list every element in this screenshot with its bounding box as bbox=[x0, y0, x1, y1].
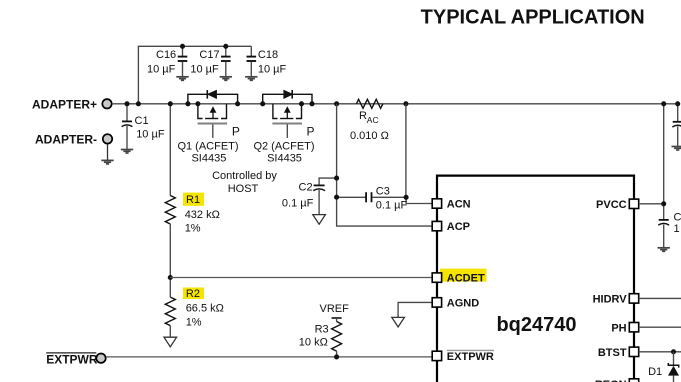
pin ACN bbox=[432, 199, 470, 211]
ground under PVCC cap bbox=[658, 248, 670, 252]
svg-text:C3: C3 bbox=[376, 186, 390, 198]
svg-text:10 µF: 10 µF bbox=[136, 128, 165, 140]
capacitor C1 bbox=[122, 104, 165, 149]
node: C17 junction bbox=[223, 44, 228, 49]
svg-text:D1: D1 bbox=[648, 366, 662, 378]
svg-text:R: R bbox=[359, 110, 367, 122]
transistor Q1 body diode loop bbox=[188, 90, 238, 104]
svg-text:10 µF: 10 µF bbox=[258, 63, 287, 75]
svg-text:ACP: ACP bbox=[447, 221, 470, 233]
pin PVCC bbox=[596, 199, 639, 211]
svg-text:0.1 µF: 0.1 µF bbox=[376, 200, 408, 212]
svg-text:C1: C1 bbox=[135, 115, 149, 127]
node: C1 tap bbox=[124, 101, 129, 106]
svg-text:VREF: VREF bbox=[320, 303, 350, 315]
wire: ADAPTER- to ground bbox=[107, 144, 109, 160]
node: Q1 source bbox=[195, 101, 200, 106]
svg-text:BTST: BTST bbox=[598, 347, 627, 359]
capacitor C16 bbox=[147, 46, 187, 76]
wire: R2 to ground bbox=[169, 326, 171, 337]
node: rail to PVCC tap bbox=[661, 101, 666, 106]
ground under ADAPTER- bbox=[101, 160, 113, 164]
svg-text:ADAPTER-: ADAPTER- bbox=[35, 133, 97, 147]
svg-text:PH: PH bbox=[611, 322, 626, 334]
svg-text:1%: 1% bbox=[186, 316, 202, 328]
svg-text:1: 1 bbox=[674, 223, 680, 235]
capacitor C18 bbox=[247, 46, 287, 76]
node: Q2 diode right bbox=[309, 101, 314, 106]
svg-text:AGND: AGND bbox=[447, 298, 479, 310]
svg-text:R2: R2 bbox=[186, 288, 200, 300]
resistor R1 bbox=[165, 193, 220, 235]
capacitor C2 bbox=[282, 178, 337, 214]
svg-text:bq24740: bq24740 bbox=[496, 314, 576, 336]
svg-text:HIDRV: HIDRV bbox=[593, 294, 628, 306]
svg-text:P: P bbox=[307, 125, 315, 139]
wire: R1 branch from rail bbox=[169, 104, 171, 196]
svg-text:1%: 1% bbox=[185, 222, 201, 234]
svg-text:HOST: HOST bbox=[228, 183, 259, 195]
node: Q1 diode left bbox=[185, 101, 190, 106]
svg-text:C17: C17 bbox=[199, 49, 219, 61]
transistor Q1 (ACFET) SI4435 bbox=[177, 104, 239, 165]
node: RAC left tap bbox=[334, 101, 339, 106]
svg-text:0.010 Ω: 0.010 Ω bbox=[350, 130, 389, 142]
svg-text:10 µF: 10 µF bbox=[147, 63, 176, 75]
svg-text:0.1 µF: 0.1 µF bbox=[282, 197, 314, 209]
svg-text:EXTPWR: EXTPWR bbox=[46, 353, 98, 367]
node: PVCC junction bbox=[661, 201, 666, 206]
node: R1/R2 ACDET junction bbox=[168, 275, 173, 280]
svg-text:SI4435: SI4435 bbox=[191, 152, 226, 164]
wire: ADAPTER+ rail bbox=[112, 103, 680, 105]
ground under edge capacitor bbox=[672, 147, 681, 151]
svg-text:PVCC: PVCC bbox=[596, 199, 627, 211]
IC U1 bq24740 box bbox=[437, 176, 634, 382]
svg-text:ADAPTER+: ADAPTER+ bbox=[32, 98, 97, 112]
svg-text:P: P bbox=[232, 125, 240, 139]
wire: AGND branch bbox=[398, 302, 432, 317]
pin AGND bbox=[432, 298, 479, 310]
node: C3 right tap bbox=[404, 195, 409, 200]
svg-text:ACDET: ACDET bbox=[447, 273, 485, 285]
resistor R3 bbox=[299, 322, 342, 357]
svg-text:ACN: ACN bbox=[447, 199, 471, 211]
pin REGN (partially visible) bbox=[595, 379, 639, 382]
pin EXTPWR bbox=[432, 350, 494, 363]
node: top rail tap bbox=[136, 101, 141, 106]
svg-text:AC: AC bbox=[367, 115, 379, 125]
wire: PH out bbox=[639, 326, 681, 328]
wire: HIDRV out bbox=[639, 297, 681, 299]
capacitor at PVCC (label cut off) bbox=[658, 211, 681, 247]
svg-text:C16: C16 bbox=[156, 49, 176, 61]
ground under C2 bbox=[313, 215, 326, 225]
svg-text:66.5 kΩ: 66.5 kΩ bbox=[186, 302, 224, 314]
wire: PVCC to rail vertical bbox=[639, 203, 664, 205]
wire: BTST out bbox=[639, 351, 681, 353]
node: Q1 diode right bbox=[235, 101, 240, 106]
diode D1 (schottky) bbox=[648, 352, 679, 382]
transistor Q2 (ACFET) SI4435 bbox=[253, 104, 314, 165]
ground under R2 bbox=[164, 337, 177, 347]
ground under C1 bbox=[121, 150, 133, 154]
svg-text:432 kΩ: 432 kΩ bbox=[185, 209, 220, 221]
svg-text:10 µF: 10 µF bbox=[190, 63, 219, 75]
wire: top capacitor rail bbox=[138, 46, 251, 104]
resistor R2 bbox=[165, 288, 224, 329]
svg-text:Q1 (ACFET): Q1 (ACFET) bbox=[177, 141, 238, 153]
terminal EXTPWR bbox=[46, 353, 106, 367]
svg-text:EXTPWR: EXTPWR bbox=[447, 351, 494, 363]
svg-text:Controlled by: Controlled by bbox=[212, 170, 277, 182]
node: C16 junction bbox=[180, 44, 185, 49]
svg-text:C2: C2 bbox=[299, 182, 313, 194]
wire: ACDET bbox=[170, 277, 432, 279]
pin ACDET (highlighted) bbox=[432, 269, 486, 285]
wire: R1 to R2 bbox=[169, 224, 171, 297]
node: Q2 source bbox=[299, 101, 304, 106]
pin ACP bbox=[432, 221, 470, 233]
node: C3 left tap bbox=[334, 195, 339, 200]
svg-text:C18: C18 bbox=[258, 49, 278, 61]
node: edge capacitor tap bbox=[675, 101, 680, 106]
net VREF bbox=[320, 303, 350, 321]
svg-text:SI4435: SI4435 bbox=[267, 152, 302, 164]
svg-text:R3: R3 bbox=[315, 323, 329, 335]
capacitor C3 bbox=[337, 186, 408, 212]
svg-text:C: C bbox=[674, 211, 681, 223]
transistor Q2 body diode loop bbox=[263, 90, 312, 104]
capacitor at rail right edge bbox=[672, 104, 681, 146]
ground under C18 bbox=[245, 77, 257, 81]
wire: RAC right sense down to ACN bbox=[405, 104, 407, 198]
ground under C16 bbox=[176, 77, 188, 81]
svg-text:TYPICAL APPLICATION: TYPICAL APPLICATION bbox=[421, 7, 645, 29]
ground at AGND bbox=[392, 317, 405, 327]
svg-text:R1: R1 bbox=[186, 194, 200, 206]
pin PH bbox=[611, 322, 638, 334]
ground under C17 bbox=[220, 77, 232, 81]
pin BTST bbox=[598, 347, 639, 359]
svg-text:Q2 (ACFET): Q2 (ACFET) bbox=[253, 141, 314, 153]
resistor RAC bbox=[350, 99, 389, 142]
pin HIDRV bbox=[593, 294, 639, 306]
wire: EXTPWR line bbox=[106, 356, 432, 358]
node: R3 on EXTPWR line bbox=[334, 354, 339, 359]
node: C2 tap bbox=[334, 176, 339, 181]
node: RAC right tap bbox=[403, 101, 408, 106]
capacitor C17 bbox=[190, 46, 230, 76]
node: R1 top tap bbox=[168, 101, 173, 106]
node: BTST / D1 junction bbox=[671, 349, 676, 354]
node: Q2 diode left bbox=[260, 101, 265, 106]
wire: RAC left sense down to ACP bbox=[337, 104, 432, 226]
svg-text:10 kΩ: 10 kΩ bbox=[299, 336, 328, 348]
